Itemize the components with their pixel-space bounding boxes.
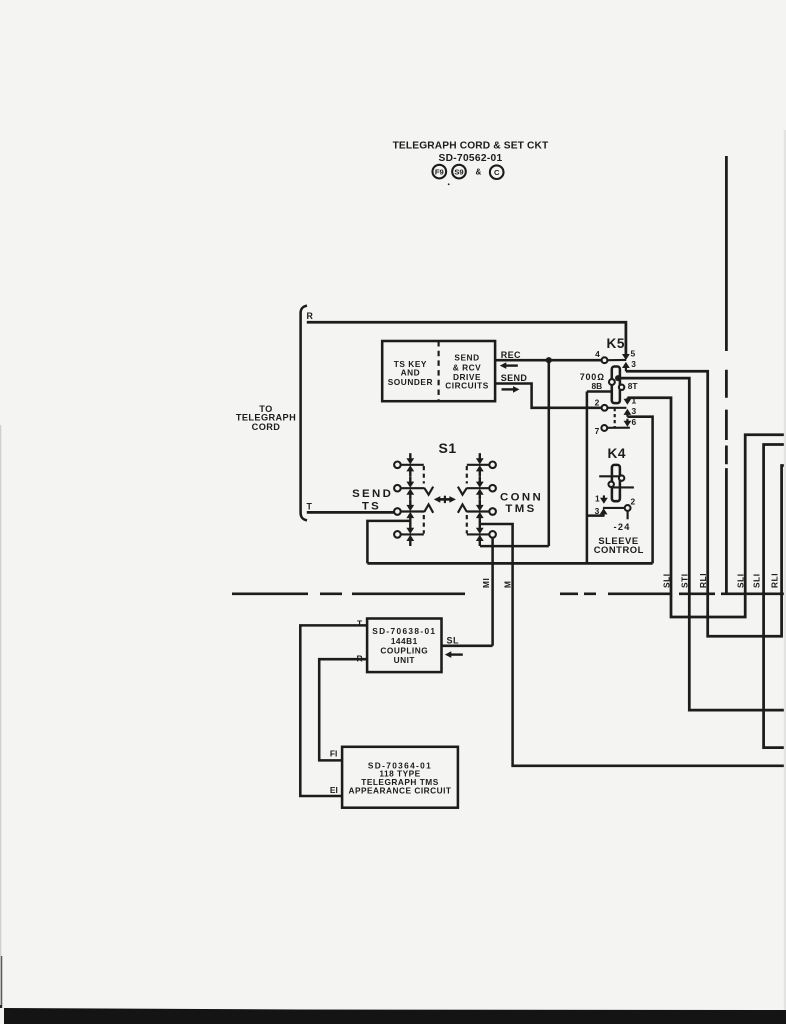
- svg-text:CIRCUITS: CIRCUITS: [445, 380, 489, 390]
- svg-text:TS: TS: [362, 501, 381, 513]
- svg-text:SEND: SEND: [501, 373, 528, 383]
- svg-text:8B: 8B: [591, 381, 602, 391]
- svg-text:F9: F9: [435, 167, 444, 176]
- svg-text:4: 4: [595, 349, 600, 359]
- svg-text:& RCV: & RCV: [453, 363, 482, 373]
- svg-text:5: 5: [630, 349, 635, 359]
- svg-text:2: 2: [630, 497, 635, 507]
- svg-text:COUPLING: COUPLING: [380, 645, 428, 655]
- svg-text:TELEGRAPH: TELEGRAPH: [236, 413, 296, 423]
- svg-text:SLI: SLI: [752, 573, 762, 588]
- svg-text:C: C: [494, 168, 500, 177]
- svg-text:6: 6: [631, 417, 636, 427]
- svg-text:T: T: [357, 618, 363, 628]
- svg-text:SOUNDER: SOUNDER: [388, 377, 433, 387]
- svg-text:CONTROL: CONTROL: [594, 544, 644, 555]
- svg-text:3: 3: [631, 359, 636, 369]
- svg-text:R: R: [307, 311, 314, 321]
- svg-text:SD-70638-01: SD-70638-01: [372, 626, 436, 636]
- svg-text:EI: EI: [330, 785, 338, 795]
- svg-text:&: &: [476, 168, 482, 177]
- svg-text:K5: K5: [607, 336, 625, 351]
- svg-text:T: T: [307, 502, 313, 512]
- svg-text:2: 2: [595, 397, 600, 407]
- svg-text:UNIT: UNIT: [394, 655, 415, 665]
- svg-text:STI: STI: [680, 573, 690, 588]
- svg-text:MI: MI: [481, 578, 491, 588]
- svg-text:SLI: SLI: [735, 573, 745, 588]
- svg-text:S1: S1: [439, 440, 457, 456]
- svg-text:SLI: SLI: [661, 573, 671, 588]
- svg-text:7: 7: [595, 426, 600, 436]
- svg-text:SL: SL: [447, 636, 460, 646]
- svg-text:SEND: SEND: [454, 353, 479, 363]
- svg-text:8T: 8T: [628, 381, 639, 391]
- svg-text:FI: FI: [330, 748, 337, 758]
- svg-text:SEND: SEND: [352, 488, 393, 500]
- svg-text:TMS: TMS: [505, 503, 536, 515]
- svg-text:APPEARANCE CIRCUIT: APPEARANCE CIRCUIT: [348, 785, 451, 795]
- svg-text:TELEGRAPH CORD & SET CKT: TELEGRAPH CORD & SET CKT: [393, 140, 549, 151]
- svg-text:3: 3: [631, 406, 636, 416]
- svg-text:S9: S9: [454, 167, 463, 176]
- svg-text:M: M: [503, 580, 513, 588]
- svg-text:K4: K4: [608, 446, 626, 461]
- svg-text:RLI: RLI: [698, 573, 708, 588]
- svg-text:REC: REC: [501, 350, 521, 360]
- svg-text:SD-70562-01: SD-70562-01: [439, 153, 503, 164]
- svg-text:CORD: CORD: [252, 422, 281, 432]
- svg-text:-24: -24: [614, 522, 631, 532]
- svg-text:1: 1: [595, 493, 600, 503]
- svg-text:CONN: CONN: [500, 491, 543, 503]
- svg-text:RLI: RLI: [769, 573, 779, 588]
